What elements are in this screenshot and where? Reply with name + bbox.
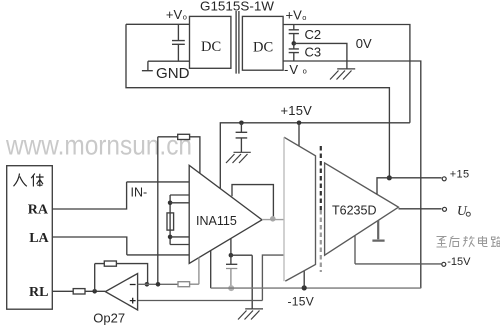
wire T6235D V- to -15V terminal [355, 236, 441, 264]
node output (gray) [270, 216, 276, 222]
wire Ref (gray) [198, 257, 200, 284]
wire -15V rail [211, 287, 421, 289]
ground tail [142, 61, 153, 70]
svg-text:www.mornsun.cn: www.mornsun.cn [5, 130, 192, 161]
resistor R1 input loop [158, 136, 178, 138]
capacitor C2 [289, 25, 299, 44]
node cap C5 bottom (gray) [228, 285, 234, 291]
terminal Uo [443, 207, 447, 211]
capacitor C1 [172, 24, 185, 61]
svg-text:INA115: INA115 [196, 214, 237, 228]
label 至后放电路 (gray) [437, 236, 500, 247]
wires RG pins [170, 195, 189, 245]
op-amp Op27 [105, 274, 137, 311]
op-amp T6235D [325, 163, 399, 255]
isolation amp input section [284, 137, 316, 281]
svg-text:T6235D: T6235D [332, 204, 376, 218]
node 0V junction [292, 41, 297, 46]
wire isolation amp input common to Op27 + [138, 255, 284, 300]
resistor R2 [73, 289, 85, 294]
capacitor C4 [236, 123, 248, 153]
svg-text:o: o [303, 66, 307, 75]
svg-text:DC: DC [253, 40, 273, 56]
wire RL electrode [52, 290, 73, 292]
wire cap node to ground [231, 255, 252, 309]
ground hatched mid [226, 152, 251, 163]
body box 人体 [7, 166, 53, 310]
wire +15V rail [220, 123, 410, 189]
capacitor C3 [289, 43, 299, 61]
wire left supply loop to +15 terminal [126, 24, 389, 178]
node op27 output [92, 289, 97, 294]
wire +15 to T6235D V+ [377, 178, 389, 195]
ground hatched bottom [238, 309, 263, 320]
wire RA to IN- [52, 182, 189, 209]
node feedback [145, 282, 150, 287]
wire -Vo to -15V [283, 61, 421, 288]
T6235D common bar [372, 220, 384, 240]
svg-text:+15V: +15V [281, 103, 313, 118]
svg-text:G1515S-1W: G1515S-1W [200, 0, 275, 13]
wire INA115 V- [210, 250, 212, 288]
wire feedback up [95, 264, 105, 292]
wire sense loop [232, 185, 273, 219]
wire IN- node down to Op27 [157, 137, 159, 284]
node RG bottom [168, 235, 173, 240]
wire Uo output [399, 208, 442, 210]
wire feedback to minus input [116, 264, 147, 285]
svg-text:RL: RL [29, 285, 48, 300]
op-amp INA115 [189, 165, 262, 263]
svg-text:C2: C2 [305, 27, 322, 42]
wire to isolation amp V+ [298, 123, 300, 146]
node cap C5 top [229, 253, 234, 258]
svg-text:GND: GND [156, 66, 190, 82]
svg-text:IN-: IN- [131, 186, 148, 200]
node +15 junction [387, 175, 392, 180]
svg-text:-15V: -15V [288, 295, 315, 309]
wire +Vo left rail [126, 23, 190, 25]
resistor R3 feedback [104, 261, 116, 266]
svg-text:+15: +15 [450, 169, 470, 181]
svg-text:+V: +V [166, 7, 183, 22]
node +15V cap junction [239, 121, 244, 126]
op27 plus [130, 298, 136, 304]
wire to isolation amp V- [303, 271, 305, 288]
node isolation amp supply [297, 121, 302, 126]
svg-text:0V: 0V [356, 36, 372, 51]
terminal +15 [442, 177, 446, 181]
svg-text:C3: C3 [305, 45, 322, 60]
svg-text:Op27: Op27 [93, 310, 125, 325]
wire R4 to Ref [190, 283, 199, 285]
resistor RG [169, 195, 171, 245]
svg-text:DC: DC [201, 39, 221, 55]
svg-text:LA: LA [29, 231, 49, 246]
svg-text:-V: -V [284, 62, 299, 77]
svg-text:-15V: -15V [447, 256, 471, 268]
op27 minus [130, 284, 136, 286]
isolation bars [236, 11, 239, 74]
node minus input [156, 282, 161, 287]
wire from INA115 bottom edge [230, 238, 232, 264]
terminal -15V [442, 262, 446, 266]
svg-text:U: U [457, 203, 468, 218]
node RG top [168, 201, 173, 206]
wire +15 terminal [389, 177, 441, 179]
svg-text:o: o [302, 13, 306, 22]
svg-text:+V: +V [286, 8, 303, 23]
label 人体 [14, 174, 44, 187]
wire +Vo right rail [283, 25, 410, 123]
node -15V isolation amp [302, 285, 307, 290]
svg-text:o: o [183, 13, 187, 22]
ground hatched top [330, 69, 355, 80]
wire GND [148, 60, 190, 62]
resistor R4 (gray) [178, 282, 190, 287]
isolation barrier dashed [320, 146, 322, 210]
wire output to isolation amp (gray) [262, 219, 284, 221]
wire LA to +input [52, 237, 189, 255]
svg-text:RA: RA [28, 203, 49, 218]
isolation amp left edge (light) [283, 137, 285, 281]
wire resistor to op27 [85, 290, 105, 292]
DC converter box 2 [242, 16, 283, 70]
wire 0V [294, 43, 347, 68]
wire op27 minus line [138, 283, 178, 285]
DC converter box 1 [190, 16, 231, 68]
capacitor C5 [226, 263, 237, 265]
